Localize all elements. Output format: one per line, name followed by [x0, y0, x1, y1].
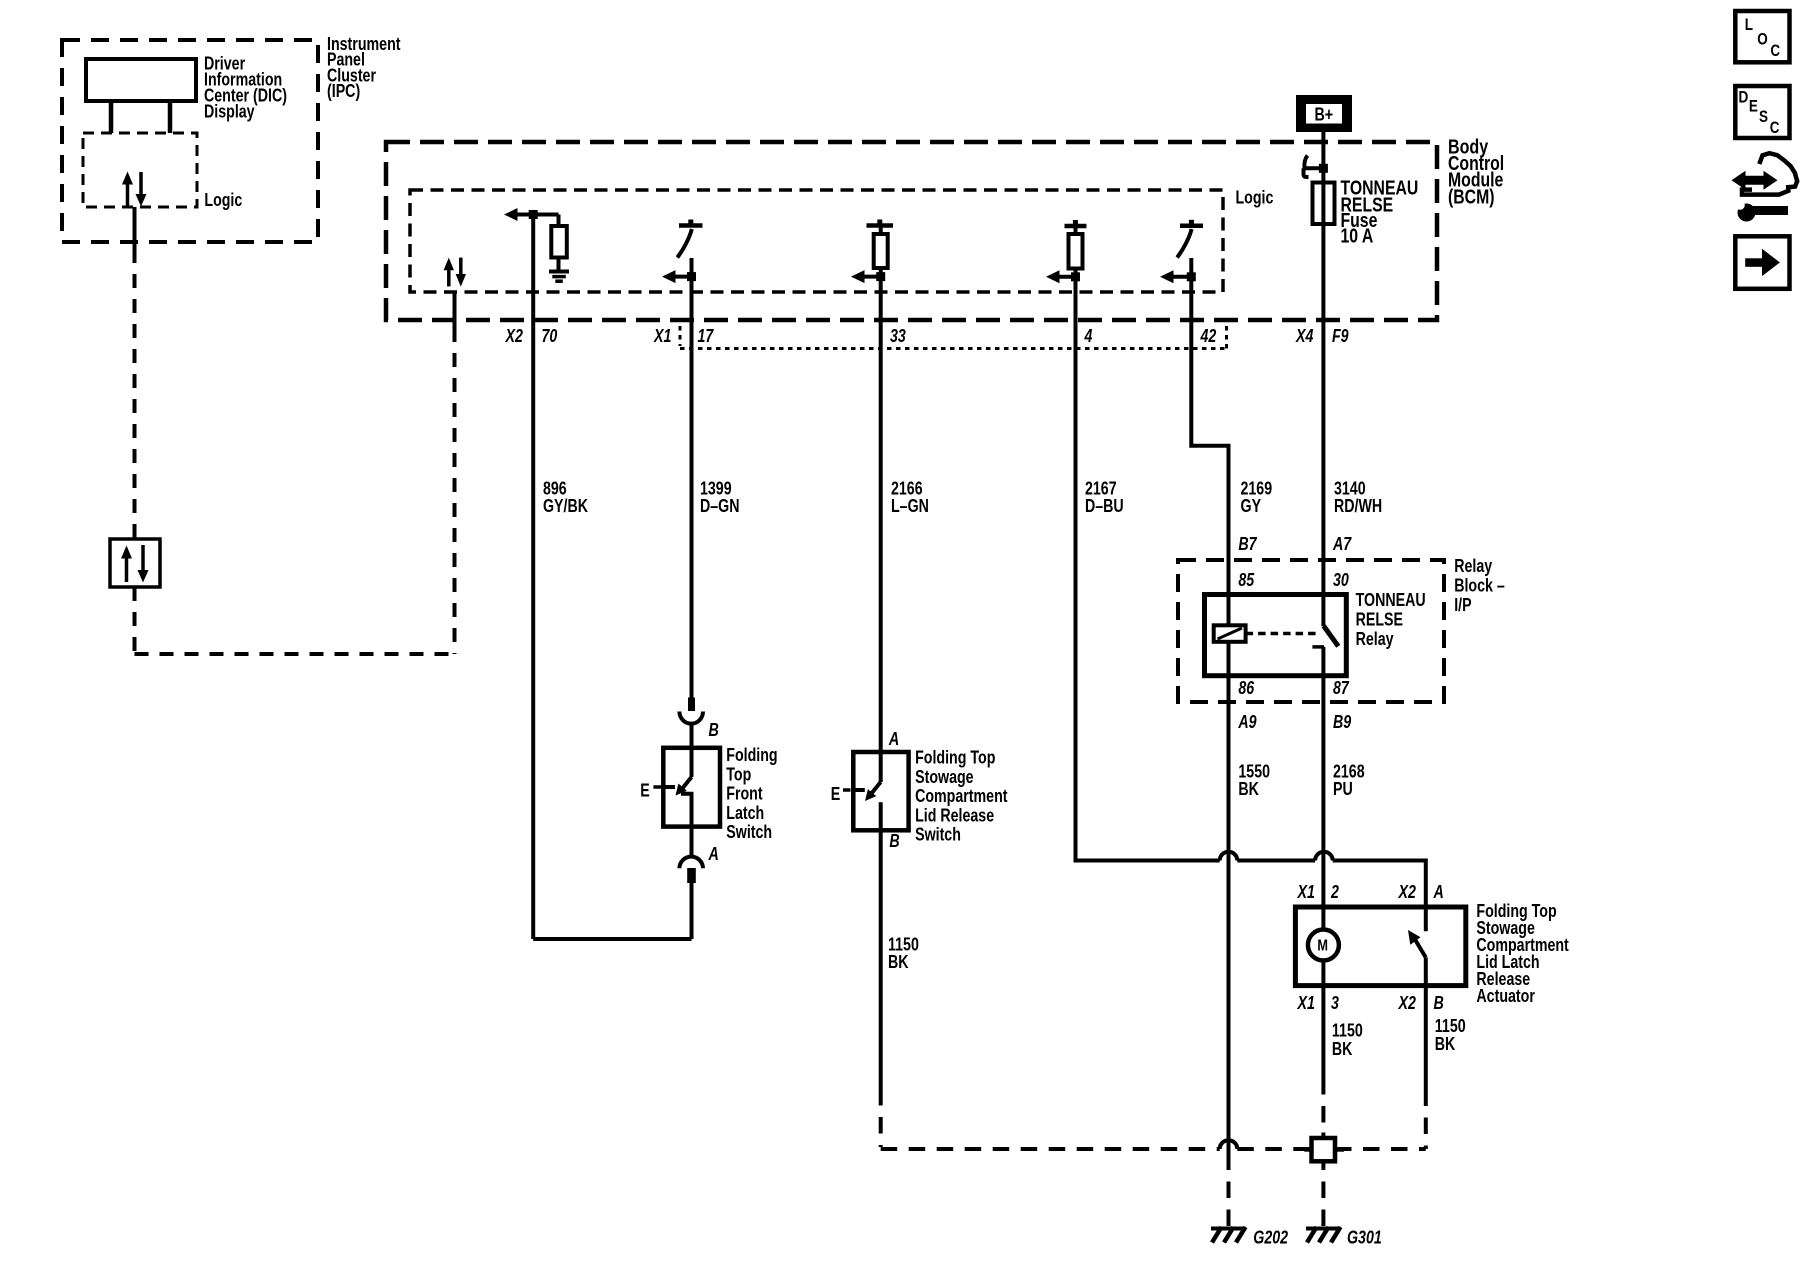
resistor (BCM internal pull-up): [551, 215, 567, 271]
wire label 1150 BK (switch X2-B): [1435, 1016, 1466, 1054]
in-line connector pin A (dome and stub): [679, 857, 703, 883]
svg-text:C: C: [1770, 41, 1780, 60]
wire 2167 down to actuator switch A: [1424, 859, 1428, 932]
svg-text:70: 70: [542, 326, 558, 346]
wire hop over 1550 BK: [1220, 852, 1238, 861]
svg-text:Relay: Relay: [1356, 629, 1394, 649]
BCM serial-data up arrow: [444, 258, 454, 287]
svg-text:Switch: Switch: [915, 825, 961, 845]
BCM logic dashed box: [410, 190, 1223, 292]
switch E terminal: [640, 781, 675, 801]
label: Instrument Panel Cluster (IPC): [327, 34, 401, 101]
svg-text:X4: X4: [1295, 326, 1313, 346]
wire 1399 D-GN from pin 17 down: [690, 258, 694, 698]
wire dashed motor X1-3 drop: [1321, 1078, 1325, 1133]
svg-text:Relay: Relay: [1454, 556, 1492, 576]
switch blade with arrow: [676, 777, 692, 796]
svg-text:42: 42: [1200, 326, 1217, 346]
relay switch blade: [1324, 626, 1339, 646]
TONNEAU RELSE Fuse 10A symbol: [1313, 183, 1335, 225]
svg-text:Logic: Logic: [1236, 188, 1274, 208]
wire label 2169 GY: [1241, 479, 1273, 517]
svg-text:X1: X1: [653, 326, 671, 346]
svg-text:Latch: Latch: [726, 803, 764, 823]
wire into switch: [690, 724, 694, 750]
svg-text:B: B: [1434, 993, 1444, 1013]
B+ terminal box: [1296, 95, 1352, 132]
svg-text:E: E: [640, 781, 650, 801]
wire dashed splice to G301: [1321, 1168, 1325, 1226]
icon DESC box: [1735, 86, 1789, 138]
svg-text:E: E: [1749, 96, 1758, 115]
svg-text:I/P: I/P: [1454, 595, 1471, 615]
svg-text:A: A: [1433, 882, 1444, 902]
svg-text:BK: BK: [1435, 1034, 1456, 1054]
wire dashed actuator X2-B drop: [1424, 1090, 1428, 1150]
wire dashed below data box: [133, 587, 137, 654]
label: Folding Top Front Latch Switch: [726, 745, 777, 842]
wire 1150 BK below lid release switch: [879, 830, 883, 1089]
svg-text:X1: X1: [1297, 993, 1315, 1013]
wire horizontal 896 run to switch A: [533, 937, 691, 941]
svg-text:F9: F9: [1332, 326, 1349, 346]
svg-text:GY: GY: [1241, 496, 1262, 516]
svg-text:B: B: [889, 831, 899, 851]
svg-text:Top: Top: [726, 764, 751, 784]
IPC logic serial-data up arrow: [122, 172, 133, 207]
svg-text:17: 17: [698, 326, 715, 346]
svg-text:86: 86: [1238, 678, 1255, 698]
svg-text:1150: 1150: [1332, 1021, 1363, 1041]
BCM serial-data down arrow: [456, 258, 466, 287]
DIC display leg right: [168, 101, 173, 133]
actuator latch switch blade with arrow: [1408, 930, 1426, 958]
wire hop over 2168 PU: [1315, 852, 1333, 861]
svg-text:TONNEAU: TONNEAU: [1356, 590, 1426, 610]
label: Folding Top Stowage Compartment Lid Release Switch: [915, 748, 1007, 845]
svg-text:E: E: [831, 784, 841, 804]
svg-text:PU: PU: [1333, 779, 1353, 799]
wire label 896 GY/BK: [543, 479, 588, 517]
svg-text:(IPC): (IPC): [327, 81, 360, 101]
svg-text:X2: X2: [1398, 993, 1416, 1013]
switch E terminal: [831, 784, 865, 804]
svg-text:1150: 1150: [1435, 1016, 1466, 1036]
svg-text:A9: A9: [1238, 712, 1257, 732]
actuator switch lower wire: [1424, 958, 1428, 1090]
connector X1 dotted outline: [680, 326, 1227, 349]
wire dashed ground run horizontal: [881, 1147, 1426, 1151]
ground G202: [1211, 1227, 1246, 1243]
svg-text:BK: BK: [1332, 1039, 1353, 1059]
DIC display rectangle: [86, 59, 196, 101]
icon next-page arrow box: [1735, 236, 1789, 288]
BCM dashed box: [386, 142, 1437, 320]
relay coil: [1214, 625, 1246, 642]
label: Driver Information Center (DIC) Display: [204, 53, 287, 121]
svg-text:D: D: [1739, 87, 1749, 106]
svg-text:D–GN: D–GN: [700, 496, 740, 516]
svg-text:Folding Top: Folding Top: [915, 748, 995, 768]
svg-text:G301: G301: [1347, 1228, 1382, 1248]
svg-text:A7: A7: [1332, 534, 1352, 554]
IPC logic serial-data down arrow: [136, 172, 147, 207]
svg-text:Actuator: Actuator: [1476, 986, 1535, 1006]
lid release switch box: [853, 752, 908, 830]
wire 2169 GY from pin 42 down with jog: [1191, 258, 1228, 625]
wire dashed vertical data up to BCM: [453, 328, 457, 654]
BCM internal switch at pin 17: [677, 220, 702, 258]
svg-text:4: 4: [1084, 326, 1093, 346]
svg-text:B9: B9: [1333, 712, 1351, 732]
wire dashed horizontal data run: [135, 652, 455, 656]
svg-text:87: 87: [1333, 678, 1350, 698]
svg-text:B: B: [709, 720, 719, 740]
label: Relay Block - I/P: [1454, 556, 1505, 615]
serial data connector box with arrows: [110, 539, 160, 587]
svg-text:RD/WH: RD/WH: [1334, 496, 1382, 516]
icon LOC box: [1735, 11, 1789, 62]
in-line connector hook at fuse feed: [1304, 156, 1324, 178]
svg-text:O: O: [1757, 29, 1768, 48]
wire label 1150 BK (lid release): [888, 935, 919, 973]
wire horizontal 2167 D-BU run: [1076, 859, 1426, 863]
svg-text:30: 30: [1333, 570, 1349, 590]
wire 1550 BK relay 86 down (solid): [1227, 642, 1231, 1169]
label: TONNEAU RELSE Fuse 10 A: [1341, 178, 1419, 248]
wire 896 GY/BK vertical from BCM pin 70: [531, 215, 535, 940]
actuator box: [1295, 907, 1465, 986]
junction pin70 line: [529, 210, 538, 219]
svg-text:GY/BK: GY/BK: [543, 496, 588, 516]
svg-text:C: C: [1770, 118, 1780, 137]
svg-text:Folding: Folding: [726, 745, 777, 765]
switch lower contact: [681, 794, 692, 826]
label: TONNEAU RELSE Relay: [1356, 590, 1426, 649]
svg-text:BK: BK: [888, 952, 909, 972]
svg-text:BK: BK: [1238, 779, 1259, 799]
svg-text:X2: X2: [505, 326, 523, 346]
svg-text:Logic: Logic: [204, 190, 242, 210]
switch blade with arrow: [865, 782, 881, 801]
svg-text:L: L: [1745, 15, 1753, 34]
svg-text:33: 33: [890, 326, 906, 346]
splice block: [1304, 1133, 1344, 1169]
relay block dashed box: [1178, 560, 1444, 702]
svg-text:RELSE: RELSE: [1356, 609, 1403, 629]
label: Folding Top Stowage Compartment Lid Latch Release Actuator: [1476, 901, 1568, 1006]
svg-text:Compartment: Compartment: [915, 786, 1007, 806]
svg-text:2: 2: [1330, 882, 1339, 902]
wire below switch to connector A: [690, 826, 694, 857]
svg-text:Front: Front: [726, 784, 762, 804]
svg-text:B+: B+: [1315, 105, 1334, 125]
svg-text:S: S: [1759, 107, 1768, 126]
wire label 1550 BK: [1238, 762, 1270, 800]
junction at fuse feed: [1319, 164, 1328, 173]
wire label 2166 L-GN: [891, 479, 929, 517]
svg-text:L–GN: L–GN: [891, 496, 929, 516]
svg-text:Stowage: Stowage: [915, 767, 974, 787]
wire 3140 RD/WH from B+ through fuse down to relay pin 30: [1321, 132, 1325, 626]
TONNEAU RELSE relay outline: [1205, 595, 1347, 676]
svg-text:Block –: Block –: [1454, 576, 1505, 596]
label: Body Control Module (BCM): [1448, 136, 1504, 208]
svg-text:G202: G202: [1253, 1228, 1288, 1248]
svg-text:M: M: [1317, 938, 1328, 955]
wire 2168 PU relay 87 down to actuator motor: [1321, 647, 1325, 930]
svg-text:Lid Release: Lid Release: [915, 805, 994, 825]
svg-text:Display: Display: [204, 102, 255, 122]
IPC dashed box: [62, 40, 318, 242]
wire solid below IPC logic: [133, 207, 137, 249]
wire 2166 L-GN from pin 33 down: [879, 268, 883, 753]
wire dashed serial data down: [133, 249, 137, 539]
svg-text:Switch: Switch: [726, 822, 772, 842]
switch lower contact: [879, 802, 883, 830]
svg-text:A: A: [708, 844, 719, 864]
svg-text:3: 3: [1331, 993, 1339, 1013]
wire label 2168 PU: [1333, 762, 1365, 800]
IPC logic dashed box: [83, 133, 197, 207]
wire label 3140 RD/WH: [1334, 479, 1382, 517]
svg-text:X2: X2: [1398, 882, 1416, 902]
wire label 2167 D-BU: [1085, 479, 1124, 517]
wire solid data entering BCM: [453, 292, 457, 328]
BCM internal input arrow at pin 17: [662, 270, 696, 283]
svg-text:85: 85: [1238, 570, 1255, 590]
BCM internal switch at pin 42: [1177, 220, 1203, 258]
actuator motor lower wire: [1321, 961, 1325, 1079]
relay fixed contact tick: [1312, 645, 1324, 649]
wire label 1150 BK (motor X1-3): [1332, 1021, 1363, 1060]
wire label 1399 D-GN: [700, 479, 740, 517]
wire dashed 1550 BK to G202: [1227, 1169, 1231, 1226]
BCM internal input arrow at pin 42: [1160, 270, 1196, 283]
front latch switch box: [663, 748, 720, 827]
wire hop ground run over 1550 BK: [1220, 1140, 1238, 1149]
DIC display leg left: [109, 101, 114, 133]
BCM internal input arrow at pin 4: [1046, 270, 1080, 283]
ground G301: [1306, 1227, 1341, 1243]
BCM internal resistor at pin 4: [1065, 220, 1087, 269]
svg-text:X1: X1: [1297, 882, 1315, 902]
switch internal: upper contact wire: [879, 753, 883, 782]
BCM internal input arrow at pin 33: [851, 270, 885, 283]
svg-text:10 A: 10 A: [1341, 226, 1374, 248]
svg-text:D–BU: D–BU: [1085, 496, 1124, 516]
ground (BCM internal): [549, 272, 569, 282]
actuator motor M: [1308, 930, 1339, 961]
svg-text:(BCM): (BCM): [1448, 186, 1495, 208]
svg-text:A: A: [888, 729, 899, 749]
wire 2167 D-BU from pin 4 down: [1074, 269, 1078, 863]
svg-text:B7: B7: [1238, 534, 1257, 554]
in-line connector pin B (stub and cup): [679, 698, 703, 724]
BCM internal resistor at pin 33: [867, 220, 894, 269]
icon component-view (car with arrow and wrench): [1732, 153, 1798, 221]
BCM internal output arrow at pin 70: [504, 208, 559, 221]
relay internal dashed link: [1246, 632, 1321, 636]
switch internal: upper contact wire: [690, 750, 694, 777]
wire from connector A down to corner: [690, 883, 694, 939]
wire dashed ground drop: [879, 1089, 883, 1147]
